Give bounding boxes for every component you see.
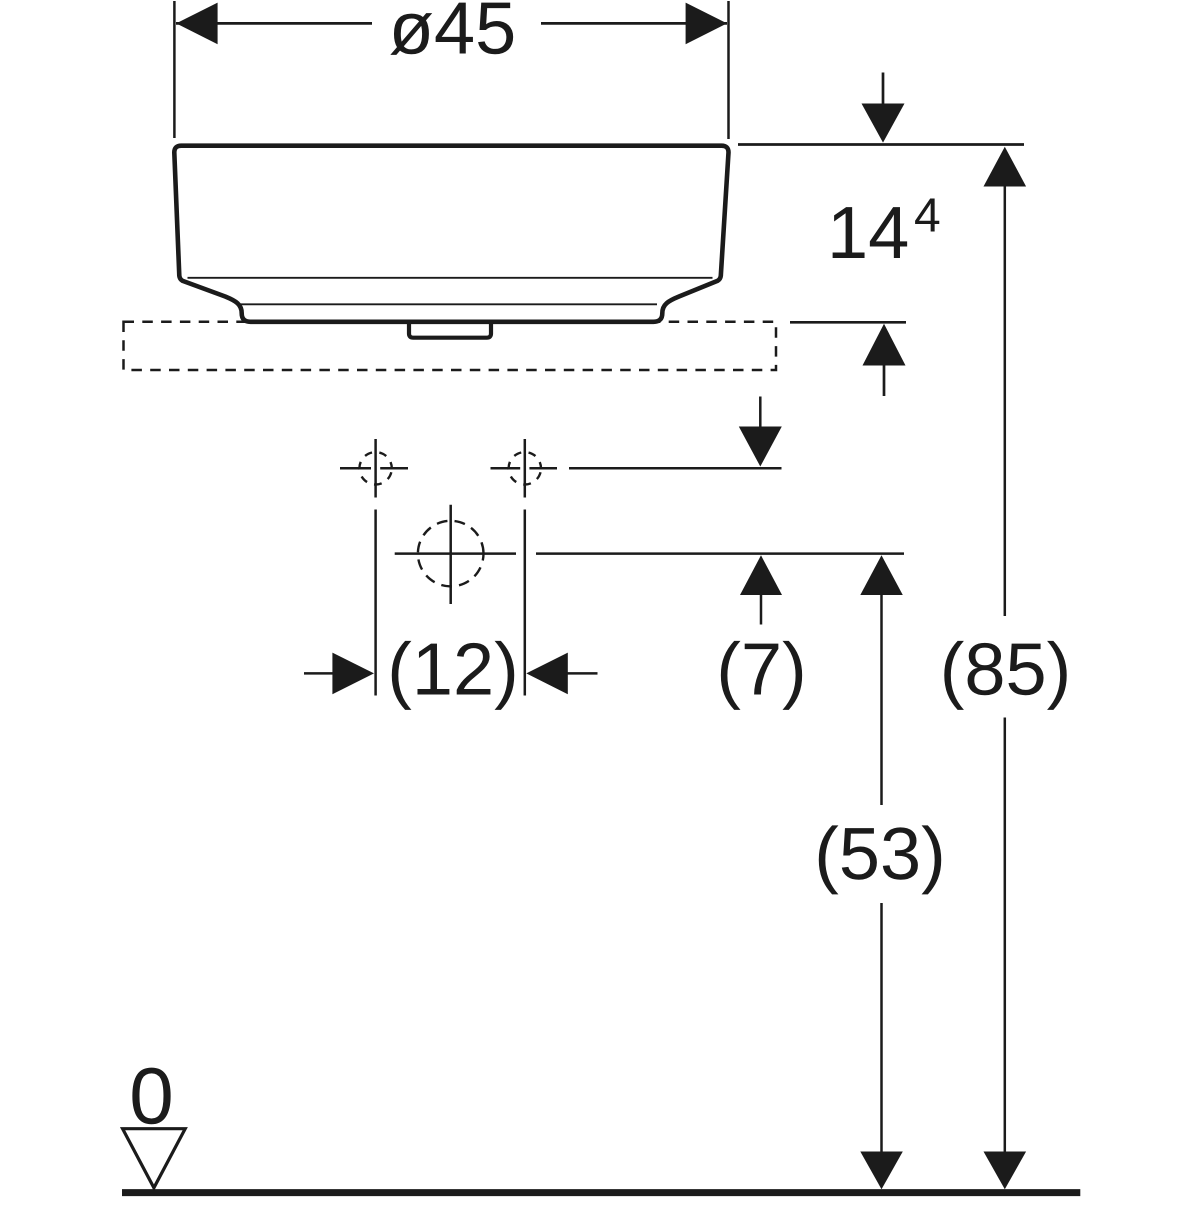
dim 14-4: counter level extension line [790, 321, 906, 324]
dim oe45: right arrow [686, 3, 727, 45]
drain hole: dashed circle [418, 521, 484, 587]
dim 85: bottom arrow [984, 1152, 1027, 1190]
dim 53: lower shaft [880, 903, 883, 1153]
drain hole: crosshair horizontal [395, 552, 516, 555]
dim 85: top arrow [984, 147, 1027, 187]
tap hole right: crosshair horizontal [491, 467, 558, 470]
dim oe45: left dimension line [176, 22, 372, 25]
dim 53: label [819, 825, 941, 894]
basin inner line upper [188, 277, 713, 279]
dashed countertop rectangle [124, 322, 777, 370]
dim oe45: label [390, 3, 513, 55]
basin outline [174, 146, 728, 322]
tap hole left: dashed circle [359, 452, 391, 484]
dim oe45: right dimension line [541, 22, 727, 25]
drain hole: crosshair vertical [449, 505, 452, 604]
dim 53: bottom arrow [860, 1152, 903, 1190]
zero label [132, 1068, 170, 1125]
dim 14-4: label [833, 207, 908, 258]
basin inner line lower [239, 303, 657, 305]
dim oe45: left arrow [176, 3, 217, 45]
dim 14-4: top arrow [862, 104, 905, 143]
dim oe45: right extension line [727, 1, 730, 139]
dim 14-4: superscript label [915, 198, 939, 231]
dim 85: lower shaft [1004, 718, 1007, 1154]
dim 14-4: rim level extension line [738, 143, 1024, 146]
dim 12: right extension line [524, 510, 527, 696]
dim 7: tap level dimension line [569, 467, 782, 470]
tap hole left: crosshair vertical [374, 439, 377, 498]
dim 7: down arrow [739, 427, 782, 467]
dim 12: right arrow shaft [566, 672, 598, 675]
floor line [122, 1189, 1080, 1196]
tap hole left: crosshair horizontal [340, 467, 408, 470]
drain outlet [409, 322, 491, 338]
dim 85: upper shaft [1004, 186, 1007, 616]
dim 12: left extension line [374, 510, 377, 696]
dim 14-4: bottom arrow [863, 324, 906, 366]
dim 12: right arrow [526, 653, 568, 695]
dim 53: top arrow [860, 555, 903, 595]
dim 7: up arrow [740, 555, 782, 595]
dim 7: up arrow shaft [760, 595, 763, 625]
dim 53: upper shaft [880, 595, 883, 806]
dim 12: left arrow shaft [304, 672, 335, 675]
tap hole right: crosshair vertical [524, 439, 527, 498]
dim 85: label [944, 641, 1066, 710]
dim 14-4: top arrow shaft [882, 73, 885, 106]
dim 12: label [392, 641, 514, 710]
dim 14-4: bottom arrow shaft [883, 365, 886, 396]
dim 7: down arrow shaft [759, 397, 762, 428]
dim 12: left arrow [332, 653, 374, 695]
dim oe45: left extension line [173, 1, 176, 138]
benchmark triangle [123, 1129, 186, 1188]
tap hole right: dashed circle [509, 452, 541, 484]
dim 7: label [721, 641, 802, 710]
drain level dimension line [536, 552, 904, 555]
